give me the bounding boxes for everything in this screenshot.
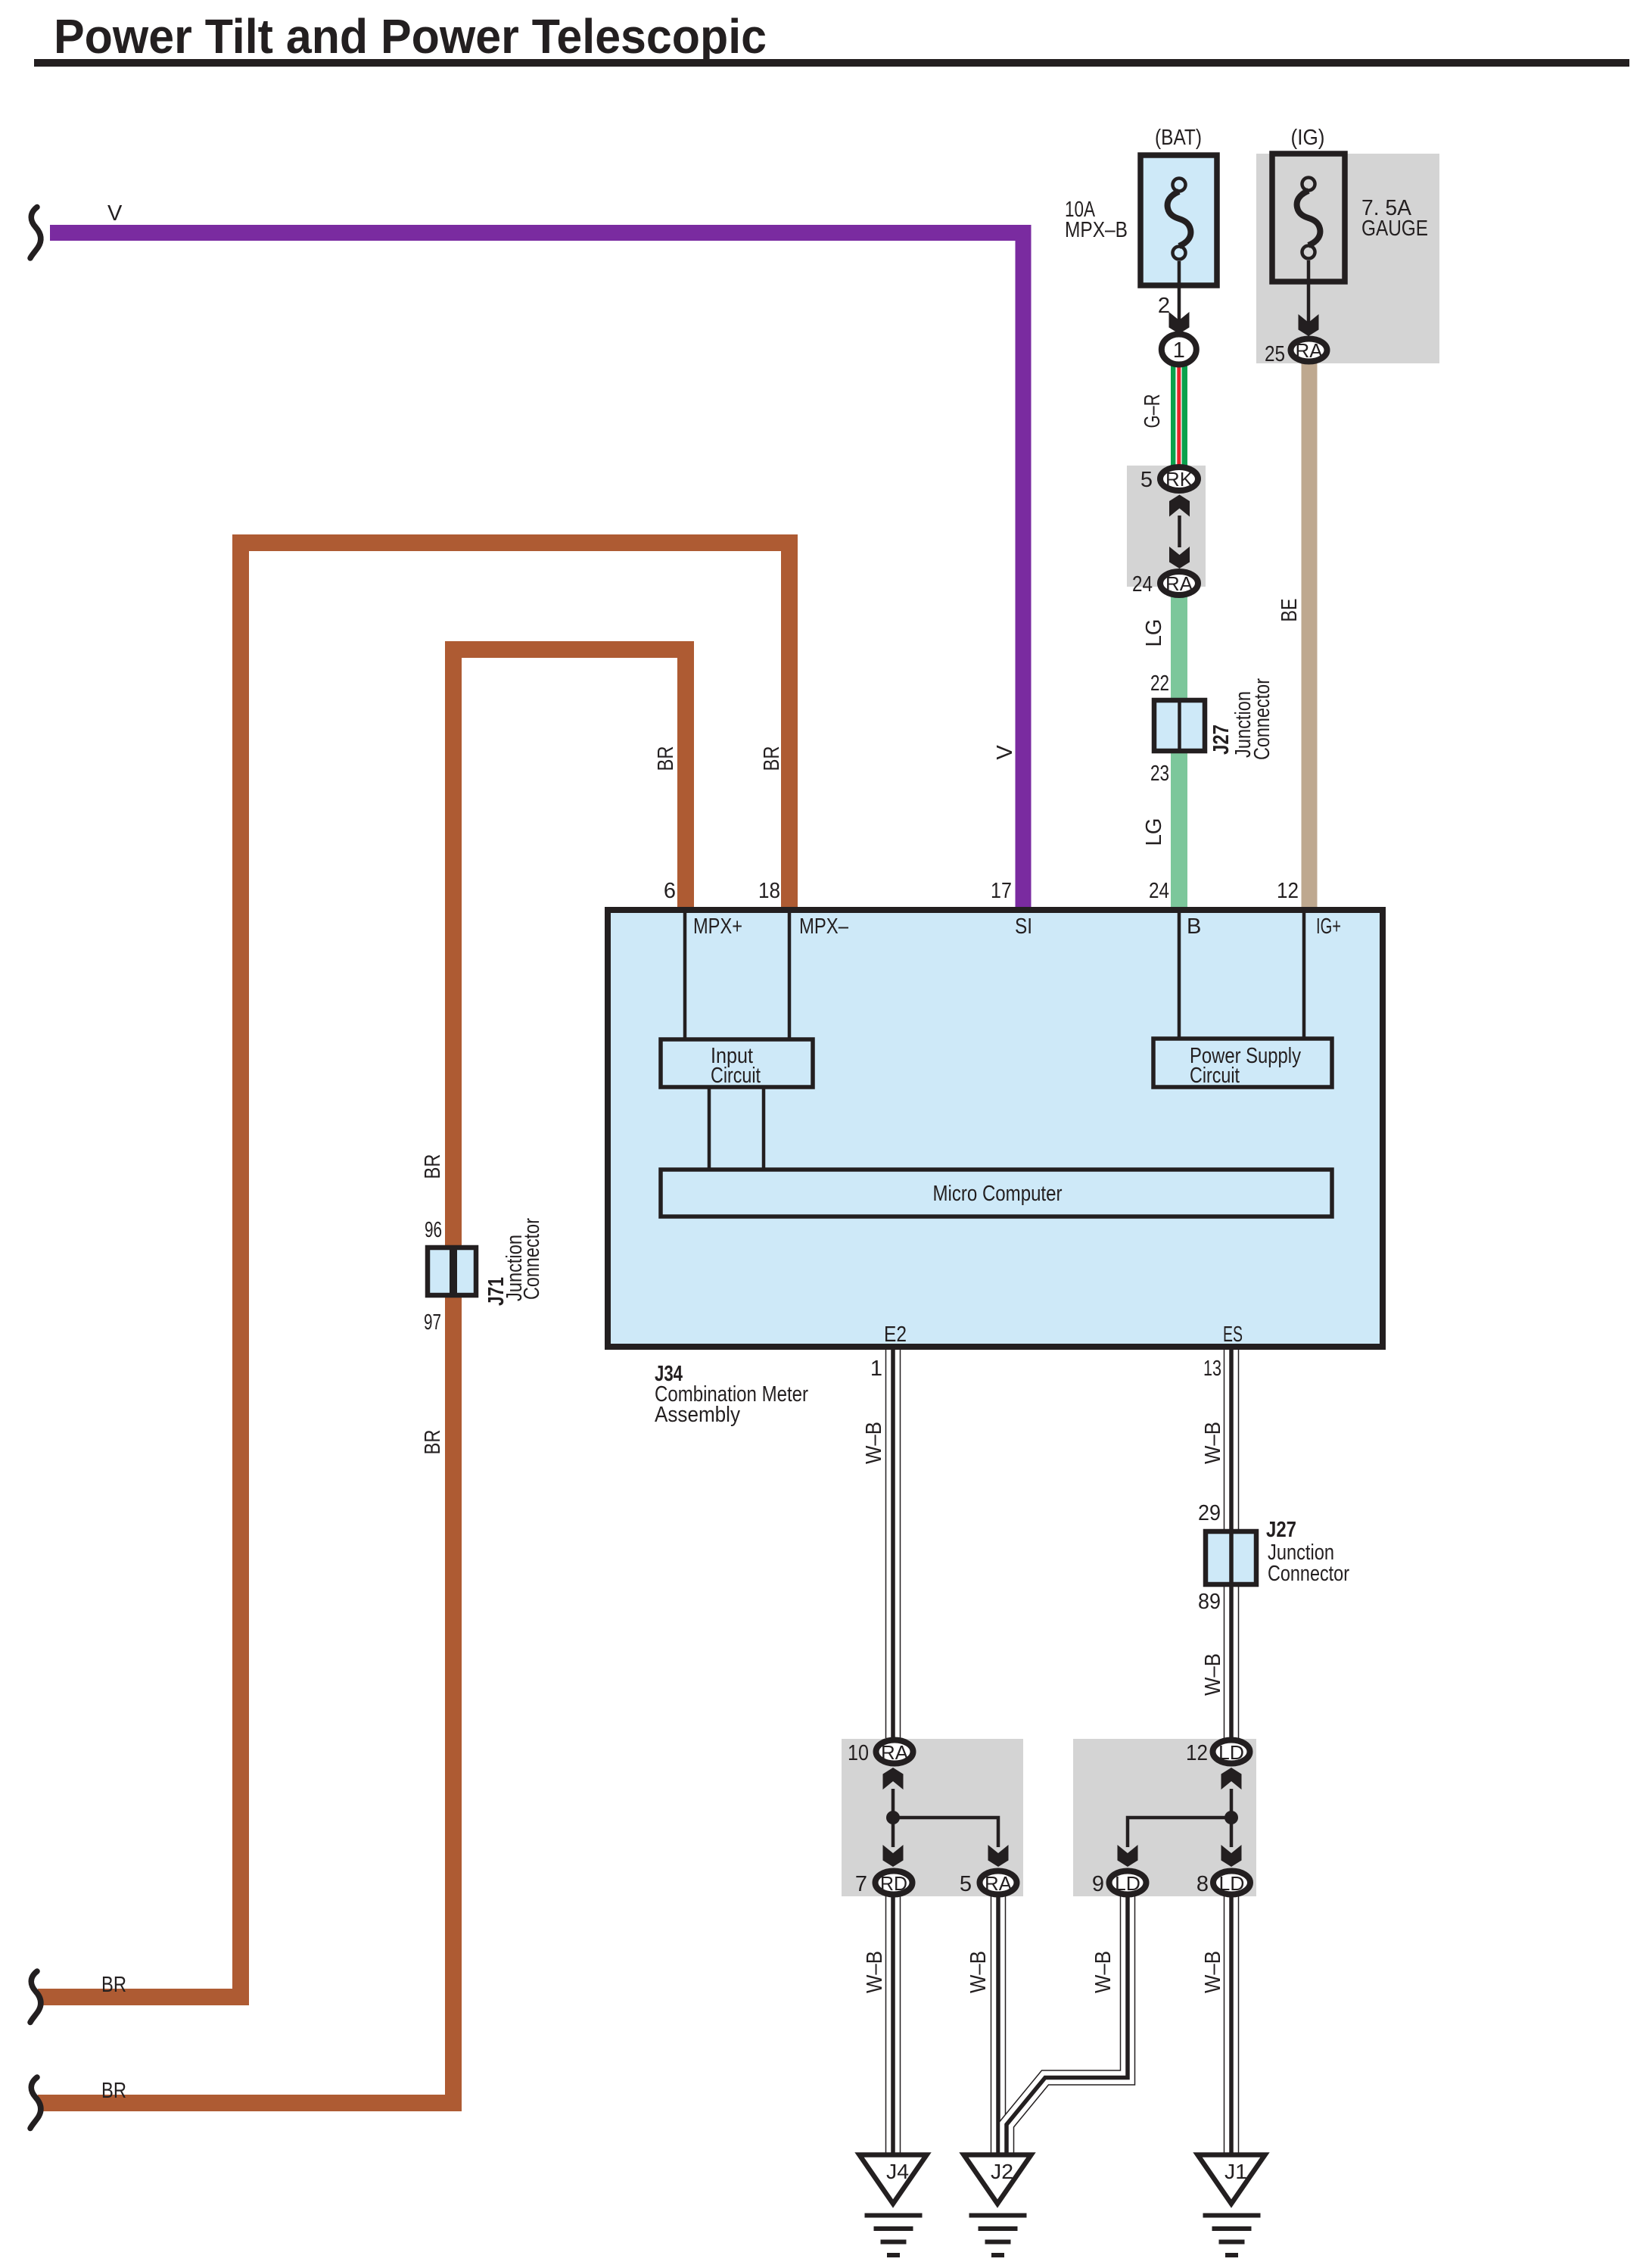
svg-text:22: 22 — [1150, 671, 1169, 696]
svg-text:97: 97 — [424, 1310, 441, 1335]
connector oval RK 5 — [1160, 467, 1198, 491]
double arrow link RK to RA — [1169, 495, 1190, 569]
arrow down into LD 8 — [1221, 1845, 1242, 1867]
svg-text:BE: BE — [1277, 599, 1302, 622]
fuse 10A MPX-B (BAT) — [1140, 155, 1217, 285]
input circuit block — [661, 1039, 813, 1087]
arrow down into RD 7 — [883, 1845, 904, 1867]
svg-text:G–R: G–R — [1140, 394, 1165, 428]
svg-text:Connector: Connector — [520, 1218, 544, 1300]
svg-text:W–B: W–B — [1201, 1951, 1225, 1993]
svg-text:ES: ES — [1223, 1322, 1243, 1347]
branch line to RA 5 — [893, 1818, 998, 1847]
svg-text:RD: RD — [880, 1872, 907, 1895]
svg-text:J2: J2 — [991, 2160, 1013, 2183]
svg-text:GAUGE: GAUGE — [1361, 217, 1428, 241]
lead fuse BAT to connector 1 — [1178, 261, 1181, 324]
lead fuse IG to connector RA 25 — [1307, 260, 1311, 326]
wire W-B from RA 5 to ground J2 — [991, 1896, 1007, 2154]
svg-text:RA: RA — [1296, 339, 1324, 362]
svg-text:W–B: W–B — [966, 1951, 991, 1993]
svg-text:5: 5 — [960, 1872, 972, 1896]
svg-text:7: 7 — [855, 1872, 867, 1896]
lead input circuit to micro computer right — [762, 1088, 766, 1169]
internal lead pin 18 MPX- to input circuit — [788, 910, 792, 1039]
junction dot right group — [1224, 1811, 1238, 1824]
svg-text:LD: LD — [1219, 1872, 1245, 1895]
svg-text:23: 23 — [1150, 762, 1169, 786]
svg-text:J27: J27 — [1266, 1518, 1296, 1542]
svg-text:(IG): (IG) — [1291, 126, 1325, 150]
svg-text:12: 12 — [1277, 879, 1299, 903]
svg-text:Circuit: Circuit — [711, 1064, 761, 1088]
ground J1 — [1198, 2155, 1265, 2258]
svg-text:B: B — [1187, 914, 1201, 939]
svg-text:J1: J1 — [1224, 2160, 1247, 2183]
title underline — [34, 59, 1629, 67]
arrow up into LD 12 — [1221, 1768, 1242, 1790]
wire W-B from RD 7 to ground J4 — [885, 1896, 901, 2154]
svg-text:9: 9 — [1092, 1872, 1104, 1896]
svg-text:SI: SI — [1015, 914, 1032, 939]
lead input circuit to micro computer left — [708, 1088, 711, 1169]
connector oval LD 8 — [1213, 1871, 1250, 1896]
arrow down into LD 9 — [1118, 1845, 1138, 1867]
svg-text:10: 10 — [848, 1741, 869, 1765]
svg-text:LD: LD — [1115, 1872, 1140, 1895]
wire W-B from E2 pin 1 down to connector RA 10 — [885, 1350, 901, 1738]
micro computer block — [661, 1170, 1332, 1217]
internal lead pin 24 B to power supply circuit — [1178, 910, 1181, 1038]
wire BE from RA 25 to pin 12 IG+ — [1302, 363, 1318, 907]
connector oval RA 10 — [876, 1740, 913, 1765]
svg-text:8: 8 — [1196, 1872, 1209, 1896]
svg-text:W–B: W–B — [862, 1422, 886, 1464]
gray highlight box behind RK/RA connectors — [1127, 466, 1206, 587]
svg-text:Micro Computer: Micro Computer — [933, 1182, 1063, 1206]
svg-text:LD: LD — [1218, 1741, 1244, 1764]
svg-text:E2: E2 — [884, 1322, 907, 1347]
ground J4 — [860, 2155, 927, 2258]
svg-text:V: V — [107, 201, 123, 226]
connector oval 1 — [1162, 335, 1196, 365]
junction dot left group — [886, 1811, 900, 1824]
svg-text:BR: BR — [421, 1154, 445, 1179]
svg-text:Circuit: Circuit — [1190, 1064, 1240, 1088]
continuation squiggle on upper BR wire — [30, 1971, 41, 2023]
fuse 7.5A GAUGE (IG) — [1272, 154, 1345, 282]
connector oval RA 25 — [1291, 339, 1327, 363]
wire W-B from LD 8 to ground J1 — [1224, 1896, 1240, 2154]
lead down to LD 8 — [1230, 1818, 1234, 1847]
connector oval RD 7 — [876, 1871, 913, 1896]
lead junction to RA 10 arrow — [892, 1789, 895, 1818]
wire W-B from LD 9 jogging left to ground J2 — [1007, 1896, 1128, 2154]
svg-text:1: 1 — [870, 1357, 882, 1381]
svg-text:MPX+: MPX+ — [693, 914, 742, 939]
junction connector J27 (top) — [1154, 698, 1205, 753]
svg-text:MPX–: MPX– — [799, 914, 849, 939]
gray highlight box behind IG fuse — [1256, 154, 1439, 363]
wire W-B from ES pin 13 through J27 to connector LD 12 — [1224, 1350, 1240, 1738]
svg-text:LG: LG — [1142, 619, 1166, 647]
junction connector J71 — [428, 1245, 476, 1298]
svg-text:RA: RA — [1165, 572, 1193, 595]
svg-text:25: 25 — [1265, 342, 1285, 366]
svg-text:BR: BR — [760, 746, 784, 771]
internal lead pin 12 IG+ to power supply circuit — [1302, 910, 1306, 1038]
svg-text:RA: RA — [985, 1872, 1013, 1895]
wire BR (inner) from continuation through J71 to pin 6 MPX+ — [38, 650, 686, 2103]
svg-text:BR: BR — [421, 1430, 445, 1455]
svg-text:J4: J4 — [886, 2160, 909, 2183]
svg-text:(BAT): (BAT) — [1155, 126, 1202, 150]
gray highlight box bottom-left connector group — [842, 1739, 1023, 1896]
svg-text:5: 5 — [1140, 468, 1153, 492]
svg-text:W–B: W–B — [863, 1951, 887, 1993]
connector oval LD 9 — [1109, 1871, 1147, 1896]
svg-text:29: 29 — [1198, 1501, 1221, 1525]
svg-text:BR: BR — [101, 1973, 126, 1997]
continuation squiggle on wire V — [30, 207, 41, 259]
svg-text:96: 96 — [425, 1218, 442, 1242]
ground J2 — [964, 2155, 1032, 2258]
svg-text:12: 12 — [1186, 1741, 1208, 1765]
wire G-R green with red stripe from connector 1 to RK — [1171, 362, 1187, 467]
internal lead pin 6 MPX+ to input circuit — [683, 910, 687, 1039]
svg-text:RK: RK — [1165, 468, 1193, 491]
junction connector J27 (lower) — [1206, 1529, 1256, 1587]
svg-text:BR: BR — [654, 746, 678, 771]
branch line to LD 9 — [1128, 1818, 1231, 1847]
arrow into connector RA 25 — [1299, 314, 1319, 336]
lead down to RD 7 — [892, 1818, 895, 1847]
svg-text:13: 13 — [1203, 1357, 1221, 1381]
svg-text:IG+: IG+ — [1316, 914, 1341, 939]
power supply circuit block — [1153, 1039, 1332, 1087]
svg-text:24: 24 — [1132, 572, 1153, 597]
arrow up into RA 10 — [883, 1768, 904, 1790]
svg-text:89: 89 — [1198, 1590, 1221, 1614]
svg-text:V: V — [993, 745, 1017, 760]
svg-text:17: 17 — [991, 879, 1012, 903]
svg-text:Assembly: Assembly — [655, 1403, 740, 1427]
svg-text:W–B: W–B — [1091, 1951, 1116, 1993]
svg-text:Power Tilt and Power Telescopi: Power Tilt and Power Telescopic — [54, 9, 767, 64]
svg-text:Connector: Connector — [1250, 678, 1274, 760]
svg-text:RA: RA — [881, 1741, 909, 1764]
svg-text:BR: BR — [101, 2079, 126, 2103]
svg-text:Connector: Connector — [1268, 1562, 1349, 1586]
wire BR (outer) from continuation to pin 18 MPX- — [38, 543, 789, 1997]
svg-text:18: 18 — [758, 879, 780, 903]
arrow into connector 1 — [1169, 312, 1190, 334]
wire LG from RA 24 to pin 24 B — [1171, 597, 1187, 907]
connector oval LD 12 — [1213, 1740, 1250, 1765]
svg-text:W–B: W–B — [1201, 1653, 1225, 1696]
svg-text:W–B: W–B — [1201, 1422, 1225, 1464]
svg-text:2: 2 — [1158, 294, 1170, 318]
arrow down into RA 5 — [988, 1845, 1009, 1867]
J34 combination meter assembly box — [608, 910, 1383, 1347]
svg-text:6: 6 — [664, 879, 676, 903]
continuation squiggle on lower BR wire — [30, 2077, 41, 2129]
connector oval RA 5 — [980, 1871, 1017, 1896]
gray highlight box bottom-right connector group — [1073, 1739, 1256, 1896]
svg-text:MPX–B: MPX–B — [1065, 218, 1128, 242]
connector oval RA 24 — [1160, 572, 1198, 595]
lead junction to LD 12 arrow — [1230, 1789, 1234, 1818]
wire V (violet) from continuation to pin 17 SI — [50, 233, 1023, 908]
svg-text:J27: J27 — [1209, 724, 1234, 755]
svg-text:24: 24 — [1149, 879, 1169, 903]
svg-text:LG: LG — [1142, 818, 1166, 846]
svg-text:1: 1 — [1173, 338, 1185, 363]
